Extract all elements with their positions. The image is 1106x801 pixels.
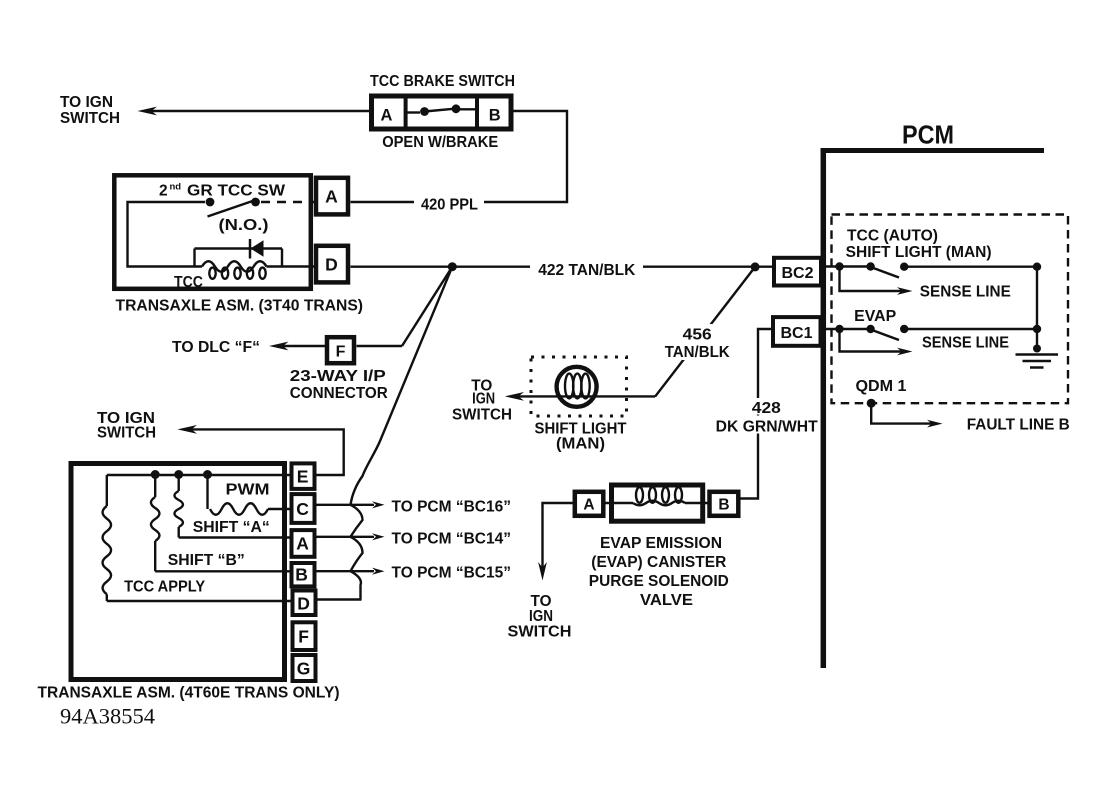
arrow to PCM BC15 [372, 568, 385, 575]
pin D box (4T60E) [293, 591, 316, 616]
svg-text:428: 428 [752, 400, 781, 417]
switch blade TCC (auto) [871, 267, 899, 278]
junction dot row2 right [1033, 325, 1041, 333]
junction dot QDM [867, 399, 876, 408]
contact dot row1 a [835, 262, 843, 270]
PCM case line [821, 148, 827, 668]
svg-text:SENSE LINE: SENSE LINE [920, 284, 1011, 301]
lamp shift light (MAN) [557, 367, 597, 407]
svg-text:F: F [298, 627, 309, 647]
svg-text:DK GRN/WHT: DK GRN/WHT [716, 419, 819, 436]
svg-text:SWITCH: SWITCH [97, 425, 156, 442]
svg-text:G: G [297, 659, 311, 679]
contact dot 2nd gear switch right [251, 198, 260, 207]
svg-text:OPEN W/BRAKE: OPEN W/BRAKE [382, 134, 498, 151]
wire stub brake switch right contact [459, 108, 477, 110]
svg-text:C: C [296, 499, 309, 519]
wire DLC arrow to F connector [283, 345, 326, 347]
svg-text:SHIFT “A“: SHIFT “A“ [193, 519, 270, 536]
svg-text:BC1: BC1 [781, 325, 813, 342]
label TO IGN SWITCH (EVAP) [508, 593, 572, 641]
svg-text:TRANSAXLE ASM. (3T40 TRANS): TRANSAXLE ASM. (3T40 TRANS) [116, 298, 364, 315]
junction dot shift B feed [151, 470, 160, 479]
label 456 TAN/BLK [655, 267, 755, 397]
svg-text:IGN: IGN [529, 608, 553, 625]
diode D1 across TCC solenoid [195, 239, 283, 267]
arrow down to ign switch [538, 562, 547, 581]
wire harness diagonal from junction to 4T60E bundle [351, 267, 453, 600]
svg-text:SHIFT “B”: SHIFT “B” [168, 552, 245, 569]
coil SHIFT A solenoid [174, 475, 291, 538]
svg-text:SHIFT LIGHT (MAN): SHIFT LIGHT (MAN) [846, 244, 992, 261]
coil TCC APPLY solenoid [103, 475, 293, 601]
svg-text:SENSE LINE: SENSE LINE [922, 335, 1009, 352]
svg-text:(MAN): (MAN) [556, 436, 605, 453]
label 422 TAN/BLK [530, 258, 643, 276]
label TO IGN SWITCH (shift light) [452, 378, 512, 424]
contact dot row2 c [900, 325, 908, 333]
solenoid EVAP purge valve [575, 485, 739, 521]
coil SHIFT B solenoid [151, 475, 292, 571]
connector BC1 [773, 317, 821, 346]
svg-text:TAN/BLK: TAN/BLK [665, 344, 731, 361]
svg-text:D: D [325, 255, 338, 275]
svg-text:QDM 1: QDM 1 [856, 378, 907, 395]
switch blade 2nd gear (N.O.) [208, 201, 255, 217]
wire pin E to ign switch [191, 429, 344, 475]
wire feed bus (top inside 4T60E) [107, 474, 292, 476]
switch TCC BRAKE SWITCH [370, 73, 515, 151]
wire stub brake switch left contact [406, 111, 420, 113]
label EVAP EMISSION (EVAP) CANISTER PURGE SOLENOID VALVE [589, 535, 729, 609]
wire QDM to fault line B [871, 403, 933, 423]
wire F connector to junction diagonal [357, 345, 403, 347]
svg-text:B: B [718, 497, 729, 514]
wire 428 DK GRN/WHT from BC1 to EVAP valve B [741, 329, 774, 499]
svg-text:420 PPL: 420 PPL [421, 197, 478, 214]
wire TCC sense row [825, 265, 871, 267]
junction dot shift A feed [174, 470, 183, 479]
wire pin D to harness bundle [317, 598, 362, 600]
svg-text:422 TAN/BLK: 422 TAN/BLK [538, 262, 636, 279]
svg-text:F: F [336, 344, 346, 361]
arrow to ign switch (4T60E) [177, 425, 197, 434]
junction dot PWM feed [203, 470, 212, 479]
arrow sense line 2 [897, 348, 913, 356]
wire 422 TAN/BLK from pin D to PCM BC2 [351, 266, 773, 268]
svg-text:IGN: IGN [472, 391, 495, 408]
contact dot brake switch right [452, 104, 461, 113]
pin G box (4T60E) [293, 655, 316, 681]
arrow sense line 1 [897, 287, 913, 295]
label 428 DK GRN/WHT [712, 398, 820, 436]
svg-text:SWITCH: SWITCH [452, 407, 512, 424]
svg-text:TO PCM “BC14”: TO PCM “BC14” [392, 531, 512, 548]
contact dot brake switch left [420, 107, 429, 116]
wire EVAP valve A to ign switch [543, 503, 575, 571]
svg-text:E: E [297, 467, 309, 487]
svg-text:A: A [325, 187, 338, 207]
svg-text:94A38554: 94A38554 [60, 704, 155, 729]
svg-text:BC2: BC2 [782, 265, 814, 282]
contact dot row1 b [866, 262, 874, 270]
contact dot row1 c [900, 263, 908, 271]
dashed box PCM internal [832, 215, 1069, 404]
pin D terminal box (3T40) [316, 246, 348, 283]
arrow to ign switch (top) [138, 107, 158, 116]
pin E box (4T60E) [292, 463, 315, 489]
svg-text:A: A [296, 534, 309, 554]
junction dot row1 right [1033, 263, 1041, 271]
svg-text:nd: nd [170, 182, 182, 193]
svg-text:D: D [297, 594, 310, 614]
junction node at 422 wire (right) [751, 262, 760, 271]
svg-text:B: B [295, 565, 308, 585]
arrow to PCM BC14 [372, 533, 385, 540]
svg-text:SWITCH: SWITCH [60, 110, 120, 127]
svg-text:VALVE: VALVE [640, 592, 693, 609]
svg-text:PCM: PCM [902, 120, 954, 150]
wire EVAP sense row [825, 328, 871, 330]
label TO IGN SWITCH (top left) [60, 94, 120, 127]
switch blade EVAP [871, 330, 899, 341]
svg-text:TO DLC “F“: TO DLC “F“ [172, 339, 260, 356]
wire sense line 1 [840, 267, 904, 292]
svg-text:2: 2 [159, 183, 168, 200]
wire pin C to PCM BC16 [315, 504, 375, 506]
arrow to ign switch (shift light) [505, 392, 524, 401]
wire brake switch B to 420 PPL vertical [351, 111, 568, 202]
svg-text:TCC: TCC [174, 274, 203, 291]
coil PWM solenoid [208, 475, 292, 515]
svg-text:GR TCC SW: GR TCC SW [187, 183, 285, 200]
transaxle 3T40 box [114, 175, 310, 288]
arrow to DLC [269, 342, 289, 351]
ground symbol [1016, 345, 1059, 368]
svg-text:(N.O.): (N.O.) [219, 217, 269, 234]
wire pin B to PCM BC15 [315, 570, 375, 572]
svg-text:TCC BRAKE SWITCH: TCC BRAKE SWITCH [370, 73, 515, 90]
connector BC2 [774, 258, 821, 286]
wire diagonal junction to F wire [402, 267, 452, 346]
svg-text:TRANSAXLE ASM. (4T60E TRANS ON: TRANSAXLE ASM. (4T60E TRANS ONLY) [38, 685, 340, 702]
wire right vertical to ground [1036, 267, 1038, 350]
svg-text:TO PCM “BC16”: TO PCM “BC16” [392, 499, 512, 516]
svg-text:PWM: PWM [226, 482, 270, 499]
svg-text:23-WAY I/P: 23-WAY I/P [290, 368, 386, 385]
arrow to PCM BC16 [372, 501, 385, 508]
pin A terminal box (3T40) [316, 178, 348, 215]
svg-text:TO IGN: TO IGN [60, 94, 113, 111]
svg-text:TO PCM “BC15”: TO PCM “BC15” [392, 565, 512, 582]
label TO IGN SWITCH (4T60E) [97, 410, 156, 442]
arrow fault line B [927, 420, 943, 428]
svg-text:B: B [489, 106, 501, 124]
wire arrow to lamp [518, 395, 655, 397]
svg-text:PURGE SOLENOID: PURGE SOLENOID [589, 573, 729, 590]
transaxle 4T60E box [71, 464, 285, 680]
svg-text:TCC APPLY: TCC APPLY [124, 579, 206, 596]
coil EVAP solenoid [605, 487, 710, 505]
svg-text:456: 456 [683, 327, 712, 344]
contact dot row2 a [835, 325, 843, 333]
junction node at 422 wire (left) [448, 262, 457, 271]
pin F box (4T60E) [293, 622, 316, 650]
svg-text:CONNECTOR: CONNECTOR [290, 385, 388, 402]
wire sense line 2 [840, 329, 904, 352]
svg-text:(EVAP) CANISTER: (EVAP) CANISTER [591, 554, 726, 571]
wire switch feed (inside 3T40) [128, 202, 206, 267]
wire ign switch to brake switch A [151, 110, 369, 112]
svg-text:SWITCH: SWITCH [508, 624, 572, 641]
svg-text:A: A [583, 497, 594, 514]
dotted box shift light [531, 357, 627, 416]
wire 456 diagonal shift light to junction [655, 267, 755, 397]
contact dot 2nd gear switch left [206, 198, 215, 207]
pin C box (4T60E) [292, 494, 315, 523]
contact dot row2 b [866, 325, 874, 333]
svg-text:TCC (AUTO): TCC (AUTO) [847, 228, 938, 245]
svg-text:EVAP EMISSION: EVAP EMISSION [600, 535, 722, 552]
label 420 PPL on wire [414, 194, 484, 210]
connector F 23-way I/P [327, 337, 354, 363]
switch blade brake switch [425, 109, 457, 112]
svg-text:A: A [381, 106, 393, 124]
pin B box (4T60E) [292, 563, 315, 586]
wire dashed to pin A [261, 201, 316, 203]
coil TCC solenoid (3T40) [202, 261, 316, 279]
pin A box (4T60E) [292, 530, 315, 557]
svg-text:FAULT LINE B: FAULT LINE B [967, 417, 1070, 434]
svg-text:EVAP: EVAP [854, 308, 896, 325]
wire pin A to PCM BC14 [315, 536, 375, 538]
